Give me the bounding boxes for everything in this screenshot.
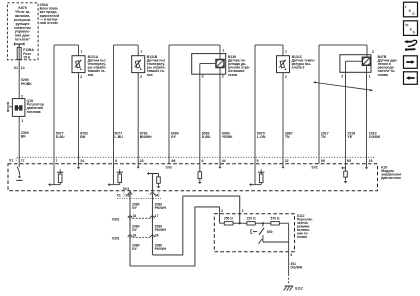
wire 2080 PK/WH segment 1 bbox=[152, 191, 154, 255]
exhaust temp sensor B131C text label bbox=[292, 55, 316, 70]
svg-text:SV2: SV2 bbox=[311, 166, 317, 170]
svg-text:2: 2 bbox=[140, 75, 142, 79]
wire from B136 pin 3 to ECU bbox=[199, 74, 201, 164]
svg-text:°F: °F bbox=[405, 24, 409, 28]
exhaust temp sensor B131C pin 2 label bbox=[285, 75, 287, 79]
svg-text:1: 1 bbox=[222, 49, 224, 53]
wire left branch of fuel pressure sensor B47B bbox=[318, 45, 320, 164]
svg-text:2: 2 bbox=[80, 75, 82, 79]
fuse F13BA bbox=[17, 48, 21, 60]
Q19 pin 2 label bbox=[21, 94, 23, 98]
svg-text:OG/BK: OG/BK bbox=[369, 135, 381, 139]
X301 row 2 label bbox=[112, 236, 120, 240]
svg-text:1: 1 bbox=[140, 50, 142, 54]
svg-text:C: C bbox=[412, 12, 415, 16]
svg-text:газов: газов bbox=[228, 73, 237, 77]
svg-text:D-BU: D-BU bbox=[56, 135, 65, 139]
wire 2309 BK from Q19 to ECU pin 77 bbox=[18, 116, 20, 163]
wire label 6783 BN/WH bbox=[140, 131, 152, 139]
svg-text:TN: TN bbox=[285, 135, 290, 139]
svg-text:7: 7 bbox=[56, 159, 58, 163]
Q19 text label bbox=[27, 99, 44, 114]
svg-text:X1: X1 bbox=[9, 159, 13, 163]
ECU internal resistor to ground pin 85 bbox=[341, 164, 347, 184]
bottom X1 pin 95 label bbox=[126, 194, 130, 198]
svg-text:3: 3 bbox=[290, 253, 292, 257]
ECU pin 7 label bbox=[56, 159, 58, 163]
wire 2080 GY routing to switch pin 1 bbox=[130, 207, 220, 266]
svg-text:570 Ω: 570 Ω bbox=[271, 217, 280, 221]
wire 351 OG/WH from switch pin 3 bbox=[288, 252, 290, 284]
S112 pin 3 label bbox=[290, 253, 292, 257]
exhaust temp sensor B131A thermistor symbol bbox=[75, 60, 82, 70]
ECU internal input arrow pin 22 bbox=[281, 164, 284, 169]
svg-text:6: 6 bbox=[115, 159, 117, 163]
inline connector X301 row 1 bbox=[128, 216, 155, 220]
B47B pin 3 stub bbox=[366, 45, 368, 57]
svg-text:39: 39 bbox=[133, 233, 137, 237]
S112 text label bbox=[297, 214, 313, 239]
svg-text:зов: зов bbox=[88, 73, 94, 77]
wire label 2309 BK bbox=[21, 131, 29, 139]
svg-text:24: 24 bbox=[80, 159, 84, 163]
svg-text:S: S bbox=[410, 27, 412, 31]
bottom X1 label bbox=[117, 193, 159, 198]
X301 row 2 pin 38 label bbox=[155, 233, 159, 237]
wire through sensor exhaust temp sensor B131B bbox=[137, 45, 139, 164]
fuel rail pressure sensor B47B box bbox=[340, 55, 371, 73]
resistor 220 ohm value label bbox=[247, 217, 256, 221]
wire 2080 PK/WH routing to switch pin 2 bbox=[153, 196, 240, 255]
svg-text:L-GN: L-GN bbox=[257, 135, 266, 139]
svg-text:22: 22 bbox=[285, 159, 289, 163]
wire top feed of exhaust temp sensor B131A bbox=[54, 44, 79, 46]
svg-text:t: t bbox=[405, 5, 407, 9]
svg-text:X1: X1 bbox=[14, 66, 18, 70]
svg-text:6: 6 bbox=[202, 159, 204, 163]
svg-text:двигателем: двигателем bbox=[381, 176, 401, 180]
svg-text:2: 2 bbox=[341, 75, 343, 79]
S112 resistor chain wire bbox=[220, 223, 289, 252]
wire label 351 OG/WH bbox=[290, 262, 302, 270]
wire label 5077 D-BU bbox=[56, 131, 65, 139]
ECU pin 66 label bbox=[172, 159, 176, 163]
svg-text:95: 95 bbox=[126, 194, 130, 198]
B136 pin 2 label bbox=[222, 74, 224, 78]
svg-text:14: 14 bbox=[21, 66, 25, 70]
X301 row 1 pin 16 label bbox=[133, 214, 137, 218]
wire left branch of pressure sensor B136 bbox=[168, 45, 170, 164]
wire top feed of B47B bbox=[319, 44, 367, 46]
splice SV3 label above pin 95 bbox=[123, 187, 129, 191]
svg-text:1: 1 bbox=[285, 50, 287, 54]
wire label 6782 BN bbox=[80, 131, 88, 139]
switch lower contact bbox=[259, 235, 289, 243]
wire top feed of exhaust temp sensor B131B bbox=[114, 44, 139, 46]
ECU pin 24 label bbox=[80, 159, 84, 163]
ECU pin 6 label bbox=[202, 159, 204, 163]
wire label 2918 YE bbox=[347, 131, 355, 139]
svg-text:GY: GY bbox=[132, 206, 138, 210]
svg-text:BN/WH: BN/WH bbox=[140, 135, 152, 139]
ground G112 label bbox=[295, 286, 303, 290]
svg-text:94: 94 bbox=[155, 194, 159, 198]
wire label 2080 PK/WH third bbox=[155, 244, 167, 252]
fuse box X50A text label bbox=[40, 3, 60, 25]
fuse feed bus bar bbox=[14, 43, 24, 48]
ECU connector X1 dotted line bbox=[17, 156, 375, 158]
ECU bottom connector X1 dotted line bbox=[117, 197, 161, 199]
svg-text:G112: G112 bbox=[295, 286, 303, 290]
svg-text:5: 5 bbox=[257, 159, 259, 163]
svg-text:PK/WH: PK/WH bbox=[155, 228, 167, 232]
ECU internal input arrow pin 24 bbox=[77, 164, 80, 169]
B136 sensor symbol bbox=[216, 60, 224, 68]
wire label 6084 YE/BK bbox=[222, 131, 233, 139]
svg-text:SV3: SV3 bbox=[166, 166, 172, 170]
svg-text:3: 3 bbox=[202, 74, 204, 78]
svg-text:YE: YE bbox=[347, 135, 352, 139]
ECU internal resistor to ground pin 6b bbox=[198, 164, 202, 184]
fuel mode switch S112 dashed box bbox=[214, 214, 294, 252]
toolbar icon forward arrow box bbox=[404, 56, 418, 69]
B136 text label bbox=[228, 55, 250, 77]
resistor 250 ohm value label bbox=[224, 217, 233, 221]
pressure differential sensor B136 box bbox=[192, 54, 226, 75]
wire top feed of B136 bbox=[169, 44, 220, 46]
exhaust temp sensor B131B text label bbox=[147, 55, 166, 77]
X301 row 1 pin 17 label bbox=[155, 214, 159, 218]
ECU pin 85 label bbox=[347, 159, 351, 163]
svg-text:топлива: топлива bbox=[27, 110, 41, 114]
B136 pin 1 stub bbox=[219, 45, 221, 60]
connector X1 pin 14 at fuse box exit bbox=[14, 65, 25, 71]
svg-text:19: 19 bbox=[369, 159, 373, 163]
svg-text:2: 2 bbox=[21, 94, 23, 98]
svg-text:плива: плива bbox=[378, 73, 388, 77]
svg-text:2: 2 bbox=[222, 74, 224, 78]
S112 pin 2 label bbox=[242, 209, 244, 213]
svg-text:SV3: SV3 bbox=[123, 187, 129, 191]
B136 pin 1 label bbox=[222, 49, 224, 53]
wire top feed of exhaust temp sensor B131C bbox=[255, 44, 283, 46]
ECU internal node for pin 94 bbox=[147, 172, 160, 191]
svg-text:77: 77 bbox=[21, 159, 25, 163]
toolbar icon fahrenheit box bbox=[404, 21, 418, 36]
svg-text:98: 98 bbox=[321, 159, 325, 163]
svg-text:66: 66 bbox=[172, 159, 176, 163]
ECU connector X1 label bbox=[9, 158, 16, 162]
svg-text:44: 44 bbox=[222, 159, 226, 163]
B47B text label bbox=[378, 55, 398, 77]
svg-text:3: 3 bbox=[372, 50, 374, 54]
wire through sensor exhaust temp sensor B131A bbox=[78, 45, 80, 164]
wire label 2080 PK/WH second bbox=[155, 224, 167, 232]
svg-text:38: 38 bbox=[155, 233, 159, 237]
svg-text:L-BU: L-BU bbox=[114, 135, 123, 139]
ECU internal input arrow pin 23 bbox=[137, 164, 140, 169]
svg-text:1: 1 bbox=[369, 75, 371, 79]
wire through sensor exhaust temp sensor B131C bbox=[282, 45, 284, 164]
ECU internal pull-up on pin 6 bbox=[108, 164, 123, 187]
wire from B47B pin 2 to ECU bbox=[345, 65, 347, 163]
svg-text:X301: X301 bbox=[112, 236, 120, 240]
svg-text:D-BU: D-BU bbox=[202, 135, 211, 139]
splice SV2 label at pin 98 bbox=[311, 166, 317, 170]
exhaust temp sensor B131A text label bbox=[88, 55, 107, 77]
ECU internal switch-to-ground on pin 77 bbox=[16, 164, 22, 181]
ECU pin 5 label bbox=[257, 159, 259, 163]
bottom X1 pin 94 label bbox=[155, 194, 159, 198]
wire label 3867 TN bbox=[285, 131, 293, 139]
Q19 actuator double arrow bbox=[7, 102, 13, 113]
svg-text:X301: X301 bbox=[112, 217, 120, 221]
wire label 5077 L-BU bbox=[114, 131, 123, 139]
ECU pin 98 label bbox=[321, 159, 325, 163]
wire label 2080 GY third bbox=[132, 244, 140, 252]
svg-text:OG/WH: OG/WH bbox=[290, 265, 302, 269]
wire left branch of exhaust temp sensor B131B bbox=[113, 45, 115, 164]
wire left branch of exhaust temp sensor B131A bbox=[53, 45, 55, 164]
wire left branch of exhaust temp sensor B131C bbox=[254, 45, 256, 164]
svg-text:220 Ω: 220 Ω bbox=[247, 217, 256, 221]
wire from B136 pin 2 to ECU bbox=[219, 68, 221, 164]
svg-text:250 Ω: 250 Ω bbox=[224, 217, 233, 221]
svg-text:1: 1 bbox=[81, 50, 83, 54]
ECU pin 23 label bbox=[140, 159, 144, 163]
svg-text:17: 17 bbox=[155, 214, 159, 218]
svg-text:1: 1 bbox=[21, 119, 23, 123]
fuse block X50A dashed enclosure bbox=[7, 3, 38, 60]
exhaust temp sensor B131B pin 2 label bbox=[140, 75, 142, 79]
ground G112 bbox=[284, 286, 293, 291]
relay K675 text label bbox=[14, 6, 32, 41]
svg-text:X1: X1 bbox=[117, 194, 121, 198]
ECU pin 6 label bbox=[115, 159, 117, 163]
ECU internal pull-up on pin 7 bbox=[48, 164, 63, 187]
exhaust temp sensor B131B thermistor symbol bbox=[135, 60, 142, 70]
svg-text:2: 2 bbox=[285, 75, 287, 79]
svg-text:2: 2 bbox=[242, 209, 244, 213]
resistor 570 ohm value label bbox=[271, 217, 280, 221]
inline connector X301 row 2 bbox=[128, 235, 155, 239]
fuel pressure regulator Q19 box bbox=[12, 99, 25, 117]
svg-text:BK: BK bbox=[21, 135, 27, 139]
bottom X1 connector symbol pin 95 bbox=[128, 193, 132, 197]
wire from B47B pin 1 to ECU bbox=[366, 65, 368, 163]
S112 pin 1 label bbox=[221, 209, 223, 213]
B47B internal wire to pin 2 bbox=[346, 61, 363, 72]
svg-text:1: 1 bbox=[221, 209, 223, 213]
toolbar icon swap squiggle arrow bbox=[404, 40, 417, 51]
wire label 5979 L-GN bbox=[257, 131, 266, 139]
B136 internal wire to pin 3 bbox=[200, 64, 216, 75]
svg-text:YE/BK: YE/BK bbox=[222, 135, 233, 139]
svg-text:23: 23 bbox=[140, 159, 144, 163]
ECU internal input arrow pin 44 bbox=[218, 164, 221, 169]
Q19 solenoid glyph bbox=[15, 105, 23, 110]
svg-text:BN: BN bbox=[80, 135, 86, 139]
wire label 2919 OG/BK bbox=[369, 131, 381, 139]
svg-text:PK/WH: PK/WH bbox=[155, 206, 167, 210]
resistor 570 ohm bbox=[271, 222, 279, 225]
svg-text:GY: GY bbox=[132, 247, 138, 251]
exhaust temp sensor B131C pin 1 label bbox=[285, 50, 287, 54]
svg-text:GY: GY bbox=[171, 135, 177, 139]
toolbar icon back arrow box bbox=[404, 72, 418, 85]
svg-text:0: 0 bbox=[413, 31, 415, 35]
wire label 2080 GY second bbox=[132, 224, 140, 232]
B47B pin 3 label bbox=[372, 50, 374, 54]
svg-text:ном отсеке: ном отсеке bbox=[40, 21, 59, 25]
svg-text:хлопа 3: хлопа 3 bbox=[292, 66, 305, 70]
svg-text:600: 600 bbox=[267, 230, 273, 234]
wire 2080 GY segment 1 bbox=[129, 191, 131, 266]
toolbar icon celsius box bbox=[404, 2, 418, 17]
wire label 5290 PK/BK bbox=[21, 78, 32, 86]
svg-text:PK/BK: PK/BK bbox=[21, 82, 32, 86]
B136 pin 3 label bbox=[202, 74, 204, 78]
ECU internal pull-up on pin 5 bbox=[249, 164, 264, 187]
X301 row 2 pin 39 label bbox=[133, 233, 137, 237]
wire label 6083 D-BU bbox=[202, 131, 211, 139]
splice SV3 label at pin 66 bbox=[166, 166, 172, 170]
svg-text:плива: плива bbox=[297, 235, 307, 239]
ECU pin 19 label bbox=[369, 159, 373, 163]
svg-text:85: 85 bbox=[347, 159, 351, 163]
wire label 2080 GY first bbox=[132, 202, 140, 210]
Q19 pin 1 label bbox=[21, 119, 23, 123]
svg-text:PK/WH: PK/WH bbox=[155, 247, 167, 251]
engine control module K20 dashed box bbox=[8, 164, 378, 191]
resistor 250 ohm bbox=[224, 222, 233, 225]
junction node at switch pin 2 bbox=[239, 222, 241, 224]
bottom X1 connector symbol pin 94 bbox=[151, 193, 155, 197]
B47B pin 1 label bbox=[369, 75, 371, 79]
ECU pin 77 label bbox=[21, 159, 25, 163]
exhaust temp sensor B131A pin 1 label bbox=[81, 50, 83, 54]
ECU pin 44 label bbox=[222, 159, 226, 163]
svg-text:гателем”: гателем” bbox=[15, 38, 31, 42]
svg-text:15 A: 15 A bbox=[23, 55, 31, 59]
exhaust temp sensor B131C sensor box bbox=[277, 56, 290, 73]
wire label 6084 GY bbox=[171, 131, 179, 139]
exhaust temp sensor B131A sensor box bbox=[72, 56, 85, 73]
wire label 2917 TN bbox=[321, 131, 329, 139]
svg-text:0: 0 bbox=[409, 8, 412, 13]
exhaust temp sensor B131B sensor box bbox=[132, 56, 145, 73]
exhaust temp sensor B131B pin 1 label bbox=[140, 50, 142, 54]
X301 row 1 label bbox=[112, 217, 120, 221]
svg-text:TN: TN bbox=[321, 135, 326, 139]
fuse F13BA value label bbox=[23, 48, 34, 59]
B47B sensor symbol bbox=[362, 57, 370, 65]
twisted wires double arrow bbox=[313, 81, 373, 91]
wire 5290 PK/BK from fuse to Q19 bbox=[18, 44, 20, 99]
switch wiper contact 600 bbox=[251, 223, 273, 235]
svg-text:16: 16 bbox=[133, 214, 137, 218]
ECU text label K20 bbox=[381, 165, 401, 180]
B47B pin 2 label bbox=[341, 75, 343, 79]
svg-text:GY: GY bbox=[132, 228, 138, 232]
exhaust temp sensor B131A pin 2 label bbox=[80, 75, 82, 79]
exhaust temp sensor B131C thermistor symbol bbox=[279, 60, 286, 70]
ECU pin 22 label bbox=[285, 159, 289, 163]
svg-text:зов: зов bbox=[147, 73, 153, 77]
resistor 220 ohm bbox=[247, 222, 255, 225]
wire label 2080 PK/WH first bbox=[155, 202, 167, 210]
junction node at switch tap bbox=[262, 222, 264, 224]
ECU internal input arrow pin 19 bbox=[365, 164, 368, 170]
